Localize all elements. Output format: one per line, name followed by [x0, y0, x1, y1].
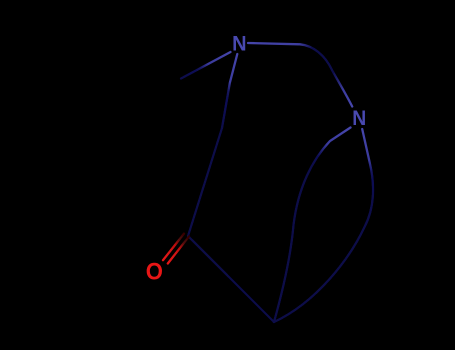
svg-text:N: N: [352, 106, 366, 130]
wire: top bridge N1-CH2-CH2-N2: [248, 43, 352, 107]
wire: ring chain down to carbonyl carbon: [188, 128, 222, 236]
wire: C=O double bond line 2 (lower): [168, 236, 189, 263]
wire: N1 methyl bond: [181, 52, 231, 79]
wire: teardrop ring left side from N2 down to B: [274, 128, 351, 323]
svg-text:N: N: [232, 32, 246, 56]
svg-text:O: O: [146, 258, 163, 285]
wire: bond N1 down into ring chain: [222, 54, 237, 128]
wire: bond carbonyl carbon to ring bottom vertex B: [188, 236, 274, 322]
wire: C=O double bond line 1 (upper): [163, 234, 184, 261]
wire: teardrop ring right side from N2 down to B: [274, 129, 373, 322]
